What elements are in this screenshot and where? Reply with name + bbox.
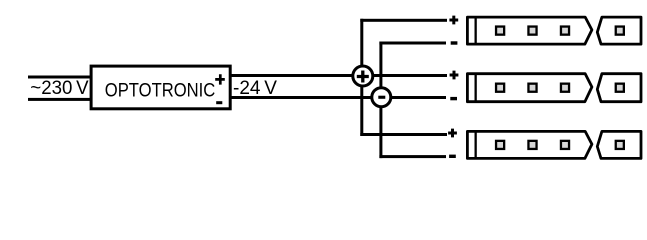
box minus terminal — [216, 101, 222, 104]
strip1 end LED — [616, 27, 624, 35]
strip3 LED 3 — [561, 141, 569, 149]
strip3 LED 2 — [528, 141, 536, 149]
strip3 connector divider — [475, 131, 477, 158]
label row1 minus — [451, 41, 458, 44]
wire -24V minus (row2 -) — [230, 96, 446, 99]
label row2 minus — [450, 97, 457, 100]
strip1 connector divider — [475, 17, 477, 44]
strip1 end piece — [597, 17, 641, 44]
junction circle minus — [372, 88, 391, 107]
label row2 plus — [450, 71, 459, 80]
LED strip 3 main body — [467, 131, 641, 158]
svg-text:-24 V: -24 V — [233, 78, 277, 99]
strip1 LED 3 — [561, 27, 569, 35]
strip1 LED 1 — [496, 27, 504, 35]
driver box U1 OPTOTRONIC — [91, 66, 230, 109]
strip3 end LED — [616, 141, 624, 149]
svg-text:OPTOTRONIC: OPTOTRONIC — [105, 80, 216, 102]
wire mains L (top left) — [28, 76, 92, 79]
wire mains N (bottom left) — [28, 98, 92, 101]
strip2 end piece — [597, 74, 641, 102]
junction circle plus — [353, 66, 373, 86]
wire plus bus vertical — [360, 19, 363, 136]
strip2 connector divider — [475, 74, 477, 102]
label row3 minus — [449, 155, 456, 158]
strip3 end piece — [597, 131, 641, 158]
strip3 LED 1 — [496, 141, 504, 149]
label row1 plus — [449, 16, 458, 25]
wire minus bus vertical — [379, 42, 382, 159]
svg-text:~230 V: ~230 V — [30, 78, 89, 99]
strip2 LED 2 — [528, 84, 536, 92]
wire row1 minus — [379, 42, 446, 45]
LED strip 1 main body — [467, 17, 641, 44]
strip2 LED 3 — [561, 84, 569, 92]
strip1 LED 2 — [528, 27, 536, 35]
wire row3 plus — [360, 133, 447, 136]
box plus terminal — [215, 74, 225, 84]
wire row1 plus — [360, 19, 447, 22]
wire row3 minus — [379, 155, 446, 158]
label row3 plus — [448, 129, 457, 138]
strip2 end LED — [616, 84, 624, 92]
strip2 LED 1 — [496, 84, 504, 92]
wire -24V plus (row2 +) — [230, 74, 447, 77]
LED strip 2 main body — [467, 74, 641, 102]
